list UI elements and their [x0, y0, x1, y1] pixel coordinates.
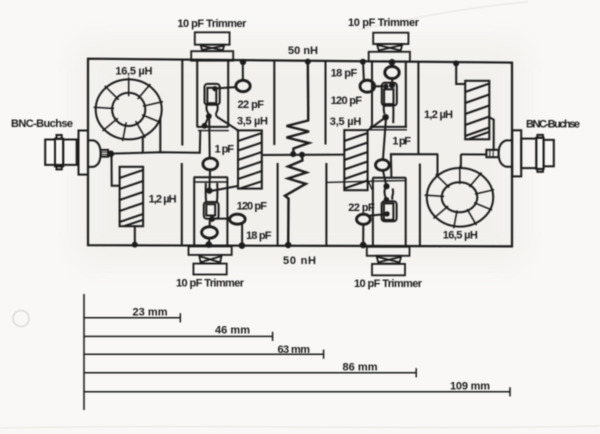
- svg-text:18 pF: 18 pF: [331, 67, 358, 79]
- svg-text:1,2 µH: 1,2 µH: [149, 194, 177, 206]
- svg-text:BNC-Buchse: BNC-Buchse: [526, 118, 580, 130]
- svg-text:50 nH: 50 nH: [288, 45, 318, 57]
- svg-text:86 mm: 86 mm: [343, 362, 378, 374]
- svg-text:16,5 µH: 16,5 µH: [115, 66, 152, 78]
- svg-text:3,5 µH: 3,5 µH: [237, 116, 268, 128]
- svg-text:109 mm: 109 mm: [450, 381, 490, 393]
- svg-text:BNC-Buchse: BNC-Buchse: [11, 118, 73, 130]
- svg-text:22 pF: 22 pF: [238, 99, 265, 111]
- svg-text:10 pF Trimmer: 10 pF Trimmer: [177, 18, 247, 30]
- svg-text:10 pF Trimmer: 10 pF Trimmer: [348, 17, 420, 29]
- svg-text:18 pF: 18 pF: [246, 230, 272, 242]
- svg-text:1,2 µH: 1,2 µH: [424, 109, 453, 121]
- svg-text:10 pF Trimmer: 10 pF Trimmer: [176, 277, 245, 289]
- svg-text:63 mm: 63 mm: [278, 344, 311, 356]
- svg-text:120 pF: 120 pF: [237, 201, 268, 213]
- svg-text:16,5 µH: 16,5 µH: [443, 230, 478, 242]
- svg-text:10 pF Trimmer: 10 pF Trimmer: [354, 278, 423, 290]
- svg-text:23 mm: 23 mm: [133, 307, 168, 319]
- svg-text:46 mm: 46 mm: [215, 325, 250, 337]
- svg-text:22 pF: 22 pF: [348, 202, 375, 214]
- svg-text:50 nH: 50 nH: [283, 255, 316, 267]
- svg-text:1 pF: 1 pF: [215, 144, 235, 156]
- svg-text:1 pF: 1 pF: [392, 136, 411, 148]
- svg-text:120 pF: 120 pF: [331, 95, 363, 107]
- svg-text:3,5 µH: 3,5 µH: [330, 116, 362, 128]
